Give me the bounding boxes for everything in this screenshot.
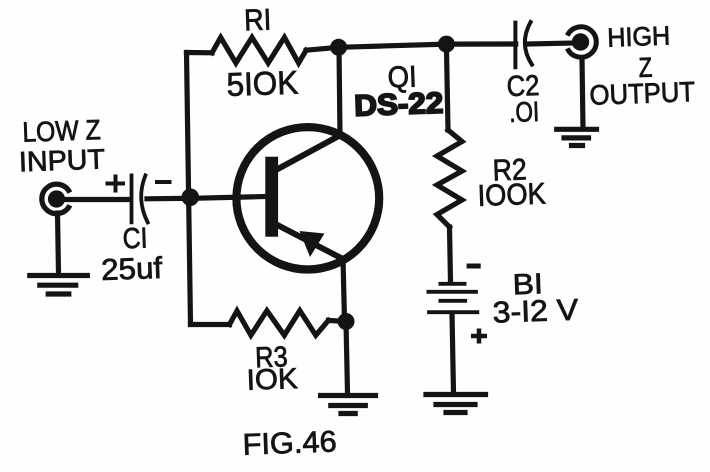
- capacitor C2: [515, 22, 532, 67]
- wire R2 to battery: [450, 227, 451, 282]
- ground emitter: [321, 396, 376, 414]
- ground output: [557, 129, 597, 145]
- battery B1: [428, 284, 477, 312]
- svg-text:FIG.46: FIG.46: [242, 425, 337, 461]
- wire base: [191, 197, 266, 199]
- wire R3 left horizontal: [191, 322, 230, 327]
- svg-text:CI: CI: [122, 223, 148, 256]
- plus sign battery: [471, 329, 487, 344]
- wire top horizontal to C2: [306, 44, 516, 50]
- wire left vertical: [187, 53, 191, 325]
- resistor R1: [212, 37, 306, 63]
- svg-text:OUTPUT: OUTPUT: [589, 76, 696, 111]
- svg-text:RI: RI: [244, 3, 272, 37]
- resistor R3: [230, 311, 329, 336]
- svg-text:25uf: 25uf: [101, 252, 164, 287]
- minus sign battery: [467, 264, 481, 269]
- ground input: [30, 276, 88, 295]
- wire top-left horizontal: [187, 50, 213, 55]
- wire collector vertical: [339, 47, 340, 135]
- output terminal: [567, 27, 596, 57]
- minus sign C1: [155, 180, 172, 184]
- transistor Q1 base bar: [265, 157, 278, 237]
- svg-text:DS-22: DS-22: [354, 87, 444, 123]
- wire C1 to base junction: [147, 196, 191, 202]
- wire battery to ground: [452, 313, 454, 393]
- svg-text:INPUT: INPUT: [18, 143, 105, 177]
- transistor Q1 circle: [236, 127, 379, 269]
- plus sign C1: [106, 175, 126, 193]
- wire input terminal to C1: [60, 197, 130, 202]
- wire R2 branch vertical: [446, 44, 448, 130]
- wire R3 to emitter junction: [328, 320, 346, 321]
- wire input terminal to ground: [58, 213, 59, 273]
- capacitor C1: [132, 175, 148, 222]
- svg-text:.OI: .OI: [509, 96, 540, 128]
- wire C2 to output terminal: [529, 43, 574, 44]
- svg-text:3-I2 V: 3-I2 V: [492, 294, 579, 330]
- wire output terminal to ground: [582, 58, 583, 129]
- svg-text:LOW Z: LOW Z: [22, 114, 101, 148]
- junction dot R2 node: [438, 36, 455, 53]
- junction dot collector node: [330, 39, 347, 56]
- svg-text:5IOK: 5IOK: [226, 64, 299, 103]
- wire emitter vertical: [343, 258, 345, 322]
- resistor R2: [437, 130, 462, 227]
- transistor Q1 collector diagonal: [276, 135, 342, 171]
- transistor Q1 emitter arrow: [300, 231, 325, 257]
- ground battery: [426, 395, 486, 413]
- svg-text:IOK: IOK: [246, 363, 299, 397]
- junction dot emitter-R3 node: [338, 313, 355, 330]
- transistor Q1 emitter diagonal: [277, 225, 343, 259]
- svg-text:IOOK: IOOK: [477, 178, 546, 213]
- wire emitter junction to ground: [346, 322, 348, 394]
- input terminal: [42, 184, 70, 213]
- svg-text:HIGH: HIGH: [607, 21, 671, 53]
- junction dot base node: [182, 188, 200, 206]
